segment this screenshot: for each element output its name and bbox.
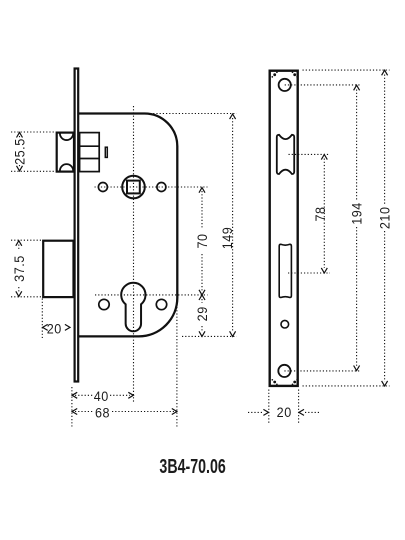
plate top screw hole — [279, 79, 291, 91]
dimension 40 line — [72, 392, 133, 398]
plate corner mark bottom-left — [271, 379, 277, 385]
cylinder keyhole — [121, 283, 145, 332]
deadbolt cutout — [279, 244, 291, 297]
svg-text:37.5: 37.5 — [11, 255, 27, 282]
hub left hole — [98, 183, 107, 192]
extension line body top — [150, 113, 237, 115]
svg-text:3B4-70.06: 3B4-70.06 — [159, 454, 225, 477]
extension line deadbolt cutout center — [288, 272, 330, 274]
hub right hole — [157, 183, 166, 192]
plate bottom screw hole — [278, 365, 290, 377]
extension line latch bottom — [11, 170, 55, 172]
extension line plate top — [303, 69, 390, 71]
svg-text:149: 149 — [219, 227, 235, 250]
dimension 78 line — [321, 155, 327, 274]
extension line plate right bottom — [298, 390, 300, 424]
dimension 210 line — [382, 70, 388, 386]
cylinder horizontal centerline — [95, 294, 208, 296]
latch bevel arc top — [60, 133, 73, 140]
svg-text:68: 68 — [95, 405, 110, 421]
plate corner mark top-right — [292, 71, 298, 77]
extension line deadbolt top — [11, 239, 42, 241]
dimension 20 line (left view) — [43, 324, 70, 330]
plate corner mark bottom-right — [292, 379, 298, 385]
latch bolt side view — [57, 133, 74, 172]
spindle square hole — [127, 181, 140, 194]
latch follower block — [80, 133, 100, 172]
extension line latch cutout center — [289, 153, 331, 155]
latch bevel arc bottom — [60, 164, 73, 171]
plate corner mark top-left — [271, 71, 277, 77]
svg-text:70: 70 — [194, 233, 210, 248]
svg-text:194: 194 — [349, 202, 365, 225]
dimension 194 line — [354, 85, 360, 370]
extension line body bottom — [182, 335, 237, 337]
faceplate side view (left view) — [75, 69, 79, 382]
deadbolt side view — [43, 241, 73, 297]
plate middle hole — [281, 320, 289, 328]
dimension 37.5 line — [16, 241, 22, 297]
extension line deadbolt front — [41, 299, 43, 339]
extension line latch top — [11, 131, 55, 133]
svg-text:20: 20 — [277, 404, 292, 420]
stop slot — [105, 147, 107, 157]
svg-text:29: 29 — [194, 306, 210, 321]
dimension 70-29 line — [199, 188, 205, 337]
lock body outline — [79, 114, 177, 337]
extension line top screw center — [285, 84, 361, 86]
extension line body right edge — [176, 307, 178, 427]
extension line bottom screw center — [284, 370, 361, 372]
cylinder left fixing hole — [99, 299, 109, 309]
svg-text:78: 78 — [312, 206, 328, 221]
dimension 20 line (right view) — [248, 409, 321, 415]
spindle horizontal centerline — [95, 186, 208, 188]
svg-text:210: 210 — [377, 206, 393, 229]
dimension 68 line — [72, 409, 177, 415]
svg-text:25.5: 25.5 — [12, 138, 28, 165]
svg-text:40: 40 — [94, 388, 109, 404]
extension line faceplate front bottom — [71, 387, 73, 427]
dimension 25.5 line — [17, 132, 23, 171]
extension line plate left bottom — [268, 390, 270, 424]
latch cutout (spool shape) — [277, 135, 294, 174]
extension line deadbolt bottom — [11, 296, 42, 298]
spindle hub circle — [122, 176, 145, 199]
striker plate front view (right view) — [270, 71, 298, 386]
cylinder right fixing hole — [156, 299, 166, 309]
svg-text:20: 20 — [47, 321, 62, 337]
dimension 149 line — [230, 114, 236, 336]
extension line plate bottom — [303, 385, 390, 387]
spindle vertical centerline — [133, 106, 135, 402]
